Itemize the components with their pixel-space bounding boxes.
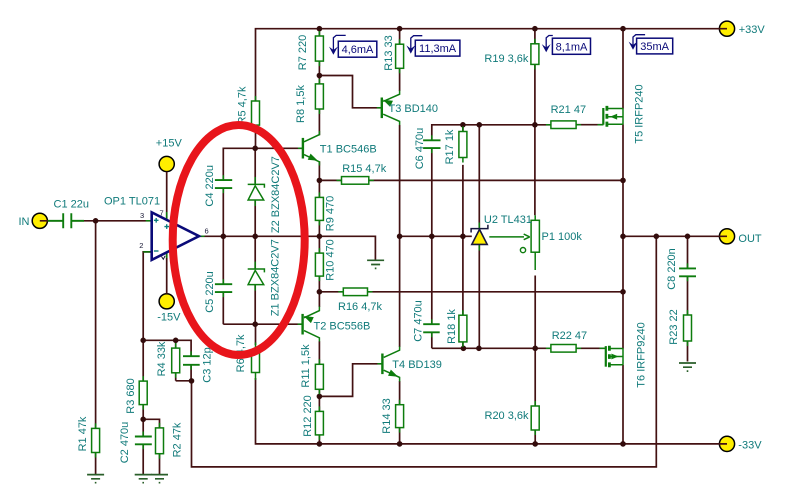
svg-text:C3 12p: C3 12p: [202, 347, 214, 382]
svg-text:R17 1k: R17 1k: [444, 129, 456, 164]
svg-text:11,3mA: 11,3mA: [419, 43, 457, 55]
svg-text:U2 TL431: U2 TL431: [484, 214, 532, 226]
svg-text:T4 BD139: T4 BD139: [392, 359, 442, 371]
svg-text:R1 47k: R1 47k: [77, 416, 89, 451]
svg-text:R16 4,7k: R16 4,7k: [338, 301, 383, 313]
svg-text:Z2 BZX84C2V7: Z2 BZX84C2V7: [270, 156, 282, 233]
svg-text:R7 220: R7 220: [297, 35, 309, 70]
svg-text:P1 100k: P1 100k: [542, 231, 583, 243]
svg-text:R3 680: R3 680: [125, 378, 137, 413]
svg-text:R18 1k: R18 1k: [446, 309, 458, 344]
svg-text:C8 220n: C8 220n: [666, 248, 678, 290]
svg-text:C6 470u: C6 470u: [414, 128, 426, 170]
svg-text:C7 470u: C7 470u: [412, 300, 424, 342]
svg-text:C5 220u: C5 220u: [204, 271, 216, 313]
svg-text:C2 470u: C2 470u: [119, 422, 131, 464]
svg-text:+33V: +33V: [739, 24, 766, 36]
svg-text:T5 IRFP240: T5 IRFP240: [634, 84, 646, 143]
svg-text:-33V: -33V: [738, 440, 762, 452]
svg-text:C4 220u: C4 220u: [204, 165, 216, 207]
svg-text:2: 2: [139, 241, 143, 250]
svg-text:R11 1,5k: R11 1,5k: [300, 344, 312, 388]
svg-text:6: 6: [205, 227, 209, 236]
svg-text:R14 33: R14 33: [381, 398, 393, 433]
svg-text:R23 22: R23 22: [668, 309, 680, 344]
svg-text:OUT: OUT: [738, 233, 762, 245]
svg-text:+15V: +15V: [156, 138, 183, 150]
svg-text:R22 47: R22 47: [552, 330, 587, 342]
svg-text:Z1 BZX84C2V7: Z1 BZX84C2V7: [270, 239, 282, 316]
svg-text:R8 1,5k: R8 1,5k: [295, 85, 307, 123]
svg-text:R5 4,7k: R5 4,7k: [237, 86, 249, 124]
svg-text:T2 BC556B: T2 BC556B: [314, 320, 371, 332]
svg-text:4,6mA: 4,6mA: [342, 44, 374, 56]
svg-text:IN: IN: [19, 216, 30, 228]
svg-text:R4 33k: R4 33k: [156, 341, 168, 376]
svg-text:R21 47: R21 47: [551, 104, 586, 116]
svg-text:T1 BC546B: T1 BC546B: [320, 144, 377, 156]
svg-text:R13 33: R13 33: [383, 35, 395, 70]
svg-text:R9 470: R9 470: [325, 196, 337, 231]
svg-text:3: 3: [140, 211, 144, 220]
svg-text:T6 IRFP9240: T6 IRFP9240: [636, 322, 648, 387]
svg-text:T3 BD140: T3 BD140: [389, 103, 439, 115]
svg-text:8,1mA: 8,1mA: [556, 41, 588, 53]
svg-text:R15 4,7k: R15 4,7k: [342, 163, 387, 175]
svg-text:R2 47k: R2 47k: [172, 422, 184, 457]
svg-text:C1 22u: C1 22u: [54, 198, 89, 210]
svg-text:35mA: 35mA: [640, 41, 669, 53]
svg-text:R10 470: R10 470: [325, 239, 337, 281]
svg-text:OP1 TL071: OP1 TL071: [104, 195, 160, 207]
svg-text:7: 7: [160, 209, 164, 218]
svg-text:R12 220: R12 220: [302, 395, 314, 437]
svg-text:R19 3,6k: R19 3,6k: [484, 53, 529, 65]
svg-text:R20 3,6k: R20 3,6k: [485, 410, 530, 422]
svg-text:-15V: -15V: [157, 312, 181, 324]
